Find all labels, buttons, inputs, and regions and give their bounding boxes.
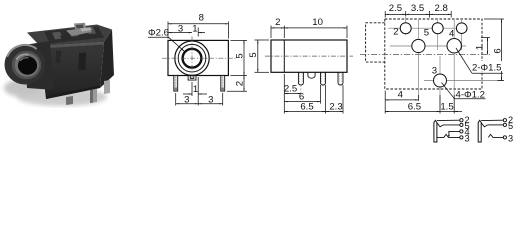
front view centre tab — [188, 76, 196, 81]
schematic A plug bar — [434, 120, 437, 142]
front view dimension 5 (height) — [231, 40, 248, 75]
layout dimension 4 — [385, 91, 418, 114]
svg-text:6: 6 — [493, 48, 504, 53]
photo body top face — [27, 25, 112, 47]
photo barrel neck — [24, 41, 54, 90]
layout hole (phi1.5 right) — [447, 39, 461, 53]
schematic B switch contact pin3 — [488, 134, 503, 137]
side view bushing divider — [283, 40, 285, 72]
layout dimension 1.5 — [440, 95, 462, 114]
photo front face slot — [79, 53, 87, 71]
svg-text:2.3: 2.3 — [329, 102, 342, 113]
svg-text:1: 1 — [193, 84, 198, 95]
svg-text:3.5: 3.5 — [411, 3, 424, 14]
svg-text:1: 1 — [475, 45, 486, 50]
svg-text:3: 3 — [178, 23, 183, 34]
svg-text:5: 5 — [234, 53, 245, 58]
front view outer barrel circle — [175, 41, 209, 75]
photo top face front rim — [40, 42, 104, 49]
svg-text:5: 5 — [248, 52, 259, 57]
photo: product photograph of 3.5mm jack socket — [4, 23, 114, 106]
photo barrel hole — [18, 56, 37, 74]
svg-text:1: 1 — [192, 23, 197, 34]
front view body — [168, 40, 228, 75]
side view dimension 6 — [284, 85, 320, 104]
layout centreline — [360, 54, 490, 56]
front view dimension 3 and 1 — [168, 28, 205, 37]
svg-text:3: 3 — [508, 133, 513, 143]
side view dimension 2.3 — [326, 85, 344, 114]
schematic A terminal 2 — [460, 119, 463, 122]
side view centreline — [265, 55, 353, 57]
front view dimension 3,3 (leg spacing) — [176, 93, 223, 106]
front view hole circle phi2.6 — [183, 49, 202, 68]
svg-text:2: 2 — [234, 81, 245, 86]
side view pin 3 — [338, 72, 343, 85]
layout dimension 6.5 — [385, 95, 440, 114]
layout top dimensions 2.5 3.5 2.8 — [385, 11, 451, 18]
schematic A switch contact pin3 — [437, 134, 460, 137]
front view dimension 8 — [168, 22, 228, 39]
layout hole (phi1.5 left) — [412, 39, 425, 52]
layout hole 4 — [456, 23, 467, 34]
layout label 2-phi1.5 with leader — [456, 48, 472, 73]
svg-text:3: 3 — [208, 95, 213, 106]
svg-text:10: 10 — [312, 17, 323, 28]
photo body right side face — [100, 30, 114, 89]
schematic B wire pin5 — [488, 124, 504, 126]
front view bushing ring circle — [178, 44, 206, 72]
svg-text:2: 2 — [275, 17, 280, 28]
side view pin 1 — [298, 72, 303, 85]
schematic B switch contact pin5 — [481, 123, 487, 127]
svg-text:2-Φ1.5: 2-Φ1.5 — [472, 62, 502, 73]
photo barrel face ring — [12, 51, 42, 80]
svg-text:4: 4 — [398, 89, 404, 100]
svg-text:2: 2 — [393, 26, 398, 37]
svg-text:1.5: 1.5 — [440, 102, 453, 113]
photo pins — [90, 88, 97, 103]
front view dimension 2 (leg length) — [227, 76, 247, 92]
svg-text:5: 5 — [424, 28, 429, 39]
side view dimension 6.5 — [284, 85, 325, 114]
schematic A wire pin5 — [443, 124, 460, 126]
layout hole 3 — [434, 74, 447, 87]
layout hole 5 — [432, 23, 443, 34]
schematic A terminal 5 — [460, 123, 463, 126]
schematic A wire pin2 — [437, 119, 460, 121]
layout dimension 1 — [481, 38, 490, 55]
side view plastic boss — [308, 72, 315, 78]
front view vertical centreline — [191, 37, 193, 81]
front view right leg — [221, 76, 225, 92]
photo top metal tab — [74, 23, 86, 30]
photo top spring contact highlight — [66, 28, 92, 37]
photo barrel outer face — [5, 45, 46, 85]
layout body outline dashed — [385, 19, 482, 89]
svg-text:6.5: 6.5 — [408, 102, 421, 113]
photo shadow — [17, 88, 107, 106]
schematic B terminal 3 — [503, 136, 506, 139]
side view dimension 2.5 — [284, 74, 301, 114]
svg-text:2.5: 2.5 — [284, 84, 297, 95]
schematic A terminal 4 — [460, 130, 463, 133]
layout dimension 6 — [484, 19, 504, 81]
layout bushing outline dashed — [366, 23, 385, 62]
side view dimension 10 (body length) — [284, 26, 347, 39]
layout construction lines — [388, 16, 503, 110]
front view horizontal centreline — [162, 57, 236, 59]
schematic A wire pin4 with contact arrow — [449, 131, 460, 136]
photo top face recess — [44, 27, 104, 44]
svg-text:4-Φ1.2: 4-Φ1.2 — [456, 89, 486, 100]
schematic B terminal 2 — [503, 119, 506, 122]
svg-text:6.5: 6.5 — [300, 102, 313, 113]
photo body lower edge — [46, 86, 100, 100]
front view dimension 1 (tab offset) — [183, 77, 207, 106]
schematic A terminal 3 — [460, 136, 463, 139]
layout hole 2 — [400, 23, 411, 34]
front view left leg — [174, 76, 178, 92]
svg-text:3: 3 — [184, 95, 189, 106]
photo barrel rim highlight — [8, 45, 37, 56]
side view body — [271, 40, 347, 72]
side view pin 2 — [321, 72, 326, 85]
svg-text:3: 3 — [432, 66, 437, 77]
side view dimension 5 (height) — [255, 40, 270, 72]
svg-text:4: 4 — [449, 28, 455, 39]
schematic B terminal 5 — [503, 123, 506, 126]
svg-text:3: 3 — [465, 133, 470, 143]
photo body front face — [40, 42, 104, 99]
svg-text:2.8: 2.8 — [435, 3, 448, 14]
schematic B plug bar — [478, 120, 481, 142]
schematic B wire pin2 — [481, 119, 503, 121]
svg-text:5: 5 — [508, 121, 513, 131]
side view dimension 2 (bushing) — [271, 26, 284, 39]
photo top face studs — [52, 32, 63, 40]
svg-text:8: 8 — [199, 13, 204, 24]
layout label 4-phi1.2 with leader — [442, 83, 455, 99]
schematic A switch contact pin5 — [437, 123, 443, 127]
svg-text:2.5: 2.5 — [389, 3, 402, 14]
